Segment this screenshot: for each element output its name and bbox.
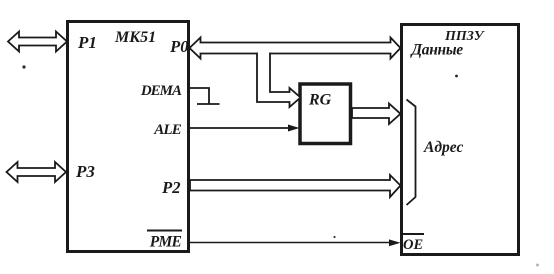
wire ALE to RG clock: [190, 127, 291, 129]
svg-text:МК51: МК51: [114, 29, 156, 46]
bus branch data to RG input: [257, 53, 301, 108]
DEMA stub termination bar: [197, 103, 220, 105]
DEMA stub wire: [190, 88, 209, 104]
svg-text:RG: RG: [308, 92, 332, 109]
arrowhead PME at OE: [389, 239, 401, 246]
bus P2 to PPZU address: [190, 175, 401, 197]
svg-text:PME: PME: [150, 234, 182, 251]
bus RG output to PPZU address: [352, 104, 401, 125]
svg-text:P2: P2: [161, 178, 180, 197]
svg-text:DEMA: DEMA: [140, 83, 182, 99]
svg-text:Адрес: Адрес: [423, 139, 463, 156]
bus data P0 to PPZU (bidirectional): [190, 38, 401, 59]
overline of PME: [147, 230, 182, 232]
svg-text:P3: P3: [75, 162, 95, 181]
svg-text:P0: P0: [169, 37, 188, 56]
noise speck 4: [536, 264, 539, 267]
svg-text:Данные: Данные: [410, 42, 464, 59]
arrowhead ALE at RG: [288, 125, 300, 132]
overline of OE: [402, 233, 424, 235]
noise speck 3: [333, 236, 335, 238]
block U1 MK51: [68, 22, 189, 252]
block U2 register RG: [300, 84, 351, 144]
noise speck 2: [455, 75, 458, 78]
svg-text:OE: OE: [403, 237, 423, 253]
brace for address group inside U3: [407, 100, 416, 206]
block U3 PPZU (PROM): [402, 25, 519, 255]
bus arrow P3 (bidirectional, left of U1): [7, 162, 67, 182]
bus arrow P1 (bidirectional, left of U1): [8, 32, 67, 52]
svg-text:P1: P1: [77, 33, 97, 52]
wire PME to OE: [190, 242, 393, 244]
svg-text:ALE: ALE: [153, 122, 182, 138]
noise speck 1: [22, 65, 25, 68]
